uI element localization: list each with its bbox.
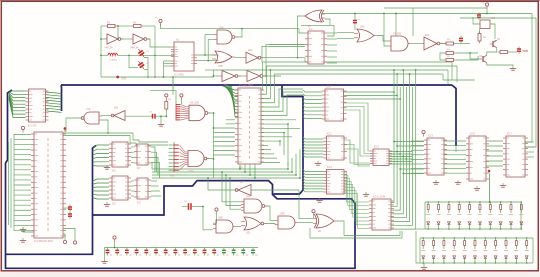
ground U15 right [455, 180, 461, 184]
wire G8 in1 long [322, 13, 532, 15]
svg-text:U6A: U6A [360, 26, 365, 29]
wires U10 right nested down to U13 [344, 103, 371, 151]
capacitor C5 [517, 46, 521, 53]
wire x173 down from rail [172, 77, 174, 95]
wires U9 right nest under bus [261, 89, 303, 107]
svg-text:IC11: IC11 [327, 134, 332, 136]
wires U8 right bundle [151, 180, 157, 182]
band right drops [451, 62, 453, 80]
pin P7 [215, 208, 218, 211]
AND G19 [275, 216, 298, 229]
display column D19 [504, 238, 508, 263]
wire G11 out [440, 43, 446, 45]
ground U12 [316, 198, 322, 202]
wires U13 right to verticals [389, 151, 412, 153]
wires U9 left lower [214, 127, 236, 129]
inverter G5 [243, 52, 263, 63]
svg-text:Q 4MHz: Q 4MHz [109, 60, 117, 62]
wire G9 inputs [337, 31, 354, 33]
display column D17 [483, 238, 487, 263]
resistor R6 vertical [478, 31, 481, 43]
svg-text:IC15: IC15 [428, 136, 434, 138]
ground U15 [433, 180, 439, 184]
ground display [421, 265, 427, 269]
AND G17 [213, 220, 236, 233]
wires U1 right to G4 [197, 54, 219, 56]
display column D2 [437, 202, 441, 229]
wire P7 down [213, 211, 217, 223]
IC U9 [235, 88, 264, 164]
bus fan into U5 [93, 145, 110, 148]
coil K1 [480, 20, 490, 29]
svg-text:U9A: U9A [246, 196, 251, 199]
svg-text:74HC04: 74HC04 [130, 48, 139, 50]
osc ground rail [101, 76, 214, 78]
wire U2 top loop [301, 25, 334, 36]
wire into U2 pin1 [299, 29, 305, 33]
NAND B 8-input [189, 105, 211, 121]
wire G16 out [266, 206, 275, 220]
wire A1 input2 [102, 120, 108, 133]
display column D13 [442, 238, 446, 263]
display column D16 [473, 238, 477, 263]
svg-text:IC14 LS244: IC14 LS244 [373, 197, 386, 199]
NAND G3 [214, 30, 238, 44]
pin P8 [312, 210, 315, 213]
bottom margin strip [0, 272, 540, 277]
wires U9 bottom drop to band [239, 164, 241, 169]
inverter G2 [130, 34, 149, 44]
ground U14 [363, 192, 369, 196]
display column D20 [514, 238, 518, 263]
net y133 long [63, 132, 133, 134]
IC U2 [305, 31, 327, 64]
display column D3 [447, 202, 451, 229]
IC U12 [324, 170, 348, 195]
ground under U4 second [20, 238, 26, 242]
bypass capacitor CB9 [183, 248, 190, 256]
resistor R7 [498, 51, 510, 54]
display column D8 [499, 202, 503, 229]
vertical feeds to G16 [222, 172, 241, 202]
ground U17 [500, 183, 506, 187]
IC U10 [322, 89, 347, 121]
wire up to G3 inputs [204, 35, 206, 55]
bypass capacitor CB10 [193, 248, 200, 256]
resistor R4 [444, 52, 456, 55]
wire G7 out [264, 75, 281, 77]
svg-text:RN1: RN1 [170, 176, 175, 178]
wire comb B feed [173, 77, 176, 104]
wire G20 out down [337, 221, 344, 236]
display column D1 [426, 202, 430, 229]
svg-text:A06: A06 [114, 107, 119, 110]
pin P9 [422, 130, 425, 136]
IC U13 [370, 149, 392, 166]
display column D11 [421, 238, 425, 263]
svg-text:R1: R1 [107, 21, 111, 25]
wire G6 to G7 [239, 75, 244, 77]
U9 center text column [249, 96, 251, 99]
wire Q2 to ground [487, 63, 513, 66]
inverter G6 [219, 71, 240, 82]
IC U14 [369, 199, 394, 230]
bypass capacitor CB16 [251, 248, 258, 256]
wires U9 left mid stubs [226, 119, 235, 121]
bus fan into U7 [93, 179, 110, 181]
capacitor C7 [459, 36, 463, 43]
wire crystal rail [101, 54, 108, 56]
wire A2 to A1 [102, 115, 113, 117]
capacitor C4 [477, 12, 481, 19]
svg-text:IC5 82C55: IC5 82C55 [239, 85, 251, 88]
ground U7 [104, 202, 110, 206]
display feed vertical [416, 231, 420, 263]
comb B spine [175, 104, 177, 121]
red pin marker [64, 127, 67, 130]
lower band rise to U9 low pins [287, 162, 289, 169]
IC U5 [109, 142, 131, 167]
right edge net 1 [525, 14, 532, 143]
IC U1 divider [171, 42, 197, 71]
wire R6 top [479, 29, 481, 34]
wires U10 right long [344, 91, 395, 93]
wires U9 right staircase to top band [261, 62, 263, 90]
inverter G1 [104, 34, 123, 44]
svg-text:U7A: U7A [86, 108, 91, 111]
wire P8 stub [313, 213, 315, 218]
bypass capacitor CB14 [232, 248, 239, 256]
net y238 [310, 231, 402, 238]
wire G5 out long [262, 57, 305, 59]
ground right [510, 66, 516, 70]
wires U7 to U8 [131, 180, 134, 182]
svg-text:IC3 573: IC3 573 [28, 125, 37, 128]
wire PB2 down [180, 98, 182, 104]
NAND A1 mirrored [81, 112, 102, 124]
wire Q1 collector [494, 40, 496, 41]
capacitor C3 [353, 18, 357, 25]
display column D5 [468, 202, 472, 229]
wire top right vertical 1 [412, 8, 414, 36]
wire P1 long net [161, 24, 300, 29]
band left nest [262, 46, 305, 62]
inverter G11 [421, 37, 442, 50]
svg-text:74LS08: 74LS08 [393, 34, 402, 36]
svg-text:IC10: IC10 [326, 87, 332, 89]
wire G8 in2 [325, 19, 330, 25]
crystal Y1 [108, 53, 118, 55]
wire U16 top from bus [455, 146, 457, 152]
wire G10 second in [384, 14, 388, 47]
bypass capacitor CB11 [203, 248, 210, 256]
svg-text:R2: R2 [133, 21, 137, 25]
display bank1 rails [425, 201, 521, 203]
wire G18 out [265, 224, 275, 225]
OR G4 [212, 51, 235, 63]
display column D9 [509, 202, 513, 229]
svg-text:74HC04: 74HC04 [104, 48, 113, 50]
wire between R1 R2 and G1 G2 [117, 25, 131, 27]
svg-text:IC4 8051AH MCU: IC4 8051AH MCU [34, 240, 53, 243]
bus fan into U9 [222, 86, 238, 90]
bypass capacitor CB6 [154, 248, 161, 256]
XOR G8 mirrored [302, 10, 325, 22]
wires right of R3 [456, 43, 471, 45]
display bank2 rails [420, 237, 533, 239]
wires into U15 top from verticals [394, 141, 424, 143]
svg-text:PWR: PWR [523, 50, 529, 53]
bus fan into U10 [303, 90, 322, 92]
wire caps right leg [144, 58, 148, 78]
display column D15 [463, 238, 467, 263]
wire RN1 top feed [173, 142, 175, 144]
supply marker [116, 76, 119, 79]
wires U14 right verticals long [391, 70, 394, 203]
svg-text:A02: A02 [248, 49, 253, 52]
decoupling caps right of U4 [68, 204, 72, 211]
svg-text:PPI: PPI [239, 168, 243, 170]
wire P2 down [486, 9, 488, 14]
capacitor C1 [136, 47, 146, 58]
svg-text:A07: A07 [240, 181, 245, 184]
svg-text:A03: A03 [224, 84, 229, 87]
wire G19 out [298, 222, 313, 224]
svg-text:A05: A05 [425, 34, 430, 37]
resistor R5 [444, 59, 456, 62]
bus left drop to U3 [60, 85, 63, 111]
wire U4 to P5 [63, 234, 65, 240]
AND G10 [388, 36, 411, 51]
NAND C 8-input [188, 151, 210, 167]
svg-text:U5A: U5A [219, 27, 224, 30]
bypass capacitor CB4 [135, 248, 142, 256]
svg-text:GND: GND [121, 77, 127, 80]
wire U4 to P6 [63, 229, 75, 241]
wire G10 out [411, 43, 421, 45]
bypass capacitor CB7 [164, 248, 171, 256]
bus corner x282 [274, 85, 304, 194]
decoupling cap 2 [68, 211, 72, 218]
right edge net 2 [460, 18, 536, 147]
bypass capacitor CB2 [115, 248, 122, 256]
bus left loop [6, 90, 356, 268]
display column D14 [452, 238, 456, 263]
wire G4 to G5 [235, 57, 243, 59]
wires U16 to U17 [486, 140, 503, 142]
resistor R3 [444, 42, 456, 45]
net band y70 [214, 69, 449, 71]
bus main horizontal [61, 84, 452, 86]
wire Q2 base [470, 53, 480, 59]
wire G15 in right [251, 190, 313, 219]
wires U11 right join bundle [344, 140, 370, 163]
wire C3 net [354, 14, 356, 19]
ground under U4 left [20, 227, 26, 231]
bypass capacitor CB5 [144, 248, 151, 256]
wire G15 out left [208, 189, 237, 191]
bus fan from U3 right pins [46, 92, 62, 94]
ground U5 [104, 165, 110, 169]
IC U7 [109, 176, 131, 200]
pin PB1 [165, 94, 168, 100]
XOR G20 [313, 214, 337, 228]
wire RB1 down [165, 109, 167, 116]
bus fan into U12 [303, 170, 324, 172]
pin P1 [159, 19, 162, 25]
pin P2 [485, 3, 488, 9]
wire K1 right [490, 24, 495, 39]
net band y62 [263, 61, 453, 63]
capacitor C2 [136, 59, 146, 70]
wire R2 right to osc node [143, 25, 155, 27]
nest x133 [133, 133, 168, 142]
wire U4 bottom left [23, 227, 34, 232]
wire G8 out left [298, 16, 303, 58]
capacitor CB horizontal [152, 114, 154, 119]
inverter A2 mirrored [111, 111, 125, 121]
bypass rail [105, 247, 259, 249]
bus right drop to U16 [452, 85, 456, 146]
wire P10 to rail [114, 242, 116, 248]
resistor R1 [105, 21, 117, 28]
IC U17 [503, 136, 528, 177]
wire A2 input [125, 115, 152, 117]
net band y74 [275, 73, 444, 75]
wires U5 to U6 [131, 146, 134, 148]
wire display bank1 feed [489, 174, 491, 203]
IC U6 [134, 144, 151, 165]
display column D6 [478, 202, 482, 229]
display column D10 [519, 202, 523, 229]
pin P10 [113, 236, 116, 242]
wires lower band [152, 168, 288, 170]
capacitor C6 [182, 206, 188, 208]
wires U6 right bundle [151, 147, 155, 169]
wire B out [208, 112, 214, 114]
IC U11 [324, 136, 348, 160]
wire C out [207, 158, 214, 160]
ground bypass [101, 259, 107, 263]
wire G17 out [236, 226, 241, 228]
bypass capacitor CB1 [106, 248, 113, 256]
U4 center text column [47, 138, 49, 141]
bus fan into U11 [303, 137, 324, 139]
net y135 [63, 136, 168, 146]
wires U4 left to bus [14, 134, 31, 136]
inverter G15 mirrored [235, 185, 251, 196]
svg-text:U9D: U9D [280, 214, 285, 216]
transistor Q2 [480, 55, 487, 63]
wire G6 in from x213 vertical [214, 75, 220, 77]
resistor R2 [131, 21, 143, 28]
svg-text:U9C: U9C [246, 233, 251, 235]
wire C6 right [191, 206, 203, 208]
wire top right vertical 2 [395, 14, 397, 37]
bypass capacitor CB3 [125, 248, 132, 256]
wire top right net [479, 13, 495, 15]
IC U3 latch [26, 89, 49, 122]
svg-text:RL1: RL1 [491, 18, 496, 20]
wire G9 out [377, 36, 388, 42]
IC U15 [424, 138, 447, 175]
wires U15 to U16 [444, 140, 466, 142]
wire K1 left [473, 17, 480, 24]
svg-text:IC1 4060: IC1 4060 [174, 74, 184, 77]
inverter G7 [244, 71, 265, 82]
svg-text:LS30: LS30 [188, 171, 194, 173]
wire C6 down branch [203, 207, 213, 230]
svg-text:U8 LS30: U8 LS30 [190, 103, 200, 105]
net band y66 [267, 65, 458, 67]
display column D18 [494, 238, 498, 263]
wire bank1 rail to feed [416, 228, 425, 230]
window top edge [0, 0, 540, 1]
OR G9 [354, 29, 377, 42]
left green bus verticals [13, 134, 15, 231]
wires U2 right [327, 32, 337, 34]
bus stub x92 up [93, 146, 97, 216]
svg-text:U9B: U9B [218, 218, 223, 220]
wire G3 out [236, 29, 242, 37]
wire G2 out to U1 [147, 39, 171, 47]
display column D4 [457, 202, 461, 229]
bus fan into U3 left [9, 90, 26, 92]
bypass capacitor CB12 [212, 248, 219, 256]
wire osc left vertical [100, 26, 102, 77]
pin P6 [73, 241, 76, 244]
wires U9 right mid [261, 119, 296, 121]
IC U8 [134, 178, 151, 199]
svg-text:IC17: IC17 [507, 134, 513, 136]
NAND G16 [241, 199, 268, 213]
pin P3 [21, 126, 24, 132]
wire R7 right [510, 51, 517, 53]
ground U16 [474, 186, 480, 190]
svg-text:IC12: IC12 [327, 167, 333, 169]
wire U1 left lower vertical [163, 61, 165, 77]
pin PB2 [180, 94, 183, 100]
vertical x213 junction [213, 113, 215, 178]
wire cap to gate B [155, 115, 166, 117]
wire Q1 emitter to Q2 [487, 48, 497, 55]
net y235 to U14 [344, 231, 400, 236]
svg-text:U5B: U5B [218, 66, 223, 68]
ground U11 [315, 161, 321, 165]
red pin U16 [488, 170, 491, 173]
wires U2 left feed [269, 43, 305, 45]
resistor RB1 vertical [165, 99, 168, 111]
wires U12 right to U14 fan [344, 172, 369, 202]
wires left of R4 R5 [440, 53, 444, 60]
resistor network RN1 spine [173, 144, 175, 173]
svg-text:IC13: IC13 [374, 147, 380, 149]
pin P5 [63, 240, 66, 243]
display column D12 [432, 238, 436, 263]
bypass capacitor CB13 [222, 248, 229, 256]
ground B [158, 122, 164, 126]
bypass capacitor CB8 [174, 248, 181, 256]
wires into U15 left [411, 140, 424, 142]
IC U4 microcontroller [31, 132, 66, 238]
wire A1 out to U4 [66, 118, 82, 132]
IC U16 [466, 136, 489, 181]
wire cap branch [129, 55, 138, 67]
display column D7 [488, 202, 492, 229]
NOR G18 [241, 217, 267, 230]
wires U17 right [525, 141, 534, 143]
wires U9 right low [261, 144, 268, 146]
